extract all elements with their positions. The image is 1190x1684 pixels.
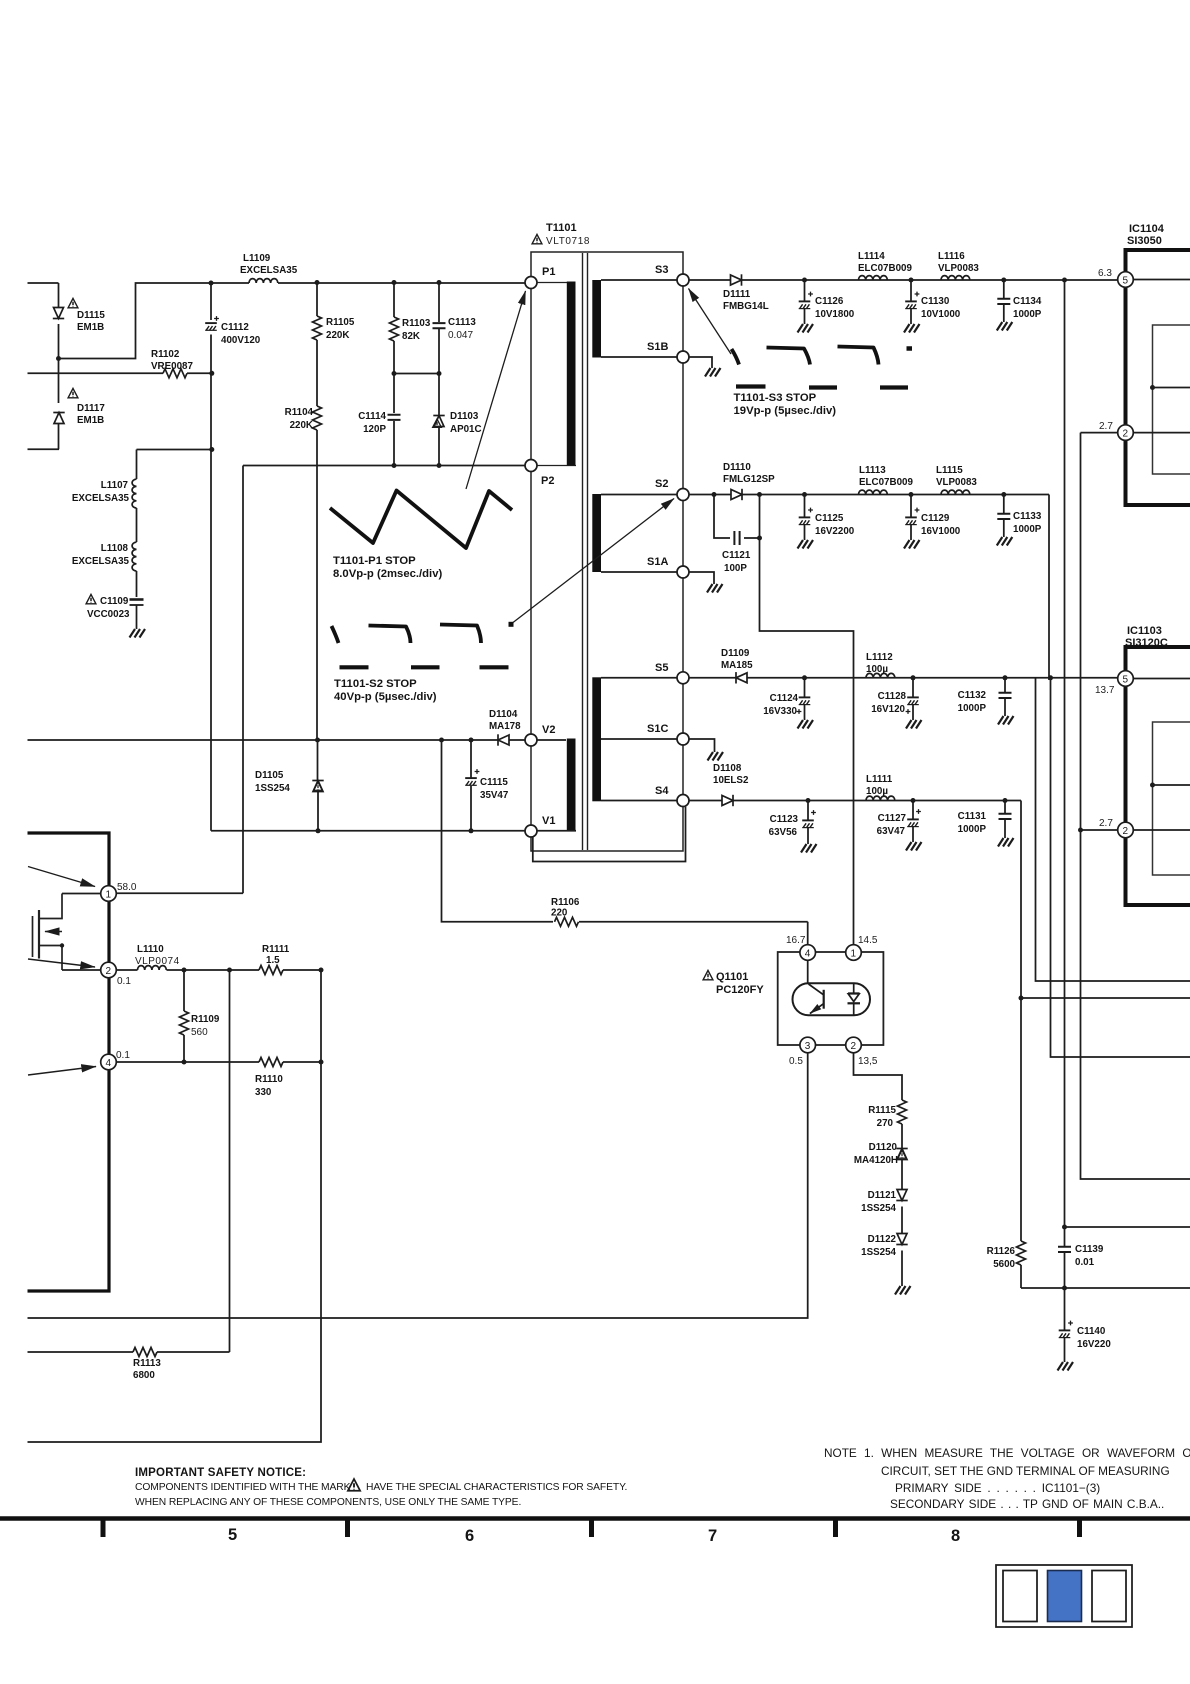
node V1/C1115 <box>469 828 474 833</box>
svg-text:L1108: L1108 <box>101 543 129 554</box>
pin 5 IC1104 <box>1098 268 1190 287</box>
svg-text:R1113: R1113 <box>133 1358 161 1369</box>
diode D1120 <box>854 1142 908 1194</box>
svg-text:1SS254: 1SS254 <box>255 783 290 794</box>
waveform T1101-S2 pulses <box>332 625 509 668</box>
svg-text:VLT0718: VLT0718 <box>546 236 590 247</box>
svg-text:100P: 100P <box>724 563 747 574</box>
wire S3 stub <box>601 279 677 281</box>
label T1101-S2 <box>334 678 437 703</box>
svg-text:V1: V1 <box>542 815 555 827</box>
arrow into pin2 <box>28 959 95 967</box>
svg-text:R1103: R1103 <box>402 318 431 329</box>
MOSFET Q inside IC1101 <box>33 894 65 971</box>
svg-text:0.047: 0.047 <box>448 330 473 341</box>
svg-text:63V56: 63V56 <box>769 827 798 838</box>
svg-text:SI3120C: SI3120C <box>1125 637 1168 649</box>
wire bottom-left stub <box>28 448 60 450</box>
inductor L1110 <box>116 944 247 970</box>
terminal V2 <box>525 724 555 746</box>
winding P1-P2 bar <box>537 283 576 466</box>
diode D1115 <box>53 298 106 333</box>
capacitor C1123 <box>769 801 816 845</box>
pin 1 IC1101 <box>62 882 243 901</box>
terminal P2 <box>525 460 554 488</box>
svg-text:0.5: 0.5 <box>789 1056 803 1067</box>
svg-text:D1117: D1117 <box>77 403 105 414</box>
svg-text:1: 1 <box>851 949 857 960</box>
diode D1105 <box>255 740 324 831</box>
resistor R1109 <box>180 970 220 1062</box>
ground S1B <box>705 368 721 377</box>
node inner box tap <box>1150 783 1190 788</box>
node link left <box>392 371 397 376</box>
svg-text:L1110: L1110 <box>137 944 164 955</box>
wire rail x1021 <box>1020 801 1022 1242</box>
resistor R1102 <box>28 349 212 378</box>
svg-text:L1111: L1111 <box>866 774 893 785</box>
svg-text:1SS254: 1SS254 <box>861 1203 896 1214</box>
safety mark in notice <box>348 1479 360 1491</box>
node C1128 top <box>911 675 916 680</box>
IC1103 block <box>1126 647 1190 905</box>
capacitor C1139 <box>1058 1227 1104 1288</box>
wire S1B stub <box>601 356 677 358</box>
resistor R1113 <box>28 1348 230 1382</box>
svg-text:16V120: 16V120 <box>871 704 905 715</box>
node y449 <box>209 447 214 452</box>
svg-text:330: 330 <box>255 1087 272 1098</box>
svg-text:C1133: C1133 <box>1013 511 1042 522</box>
IC1101 block <box>28 833 110 1291</box>
svg-text:VLP0083: VLP0083 <box>936 477 977 488</box>
node 13.7 rail <box>1048 675 1053 680</box>
node arrow source dot <box>509 622 514 627</box>
svg-text:0.1: 0.1 <box>117 976 131 987</box>
node link right <box>437 371 442 376</box>
LED in opto <box>848 983 861 1015</box>
inductor L1107 <box>72 479 137 508</box>
terminal S3 <box>655 264 689 286</box>
svg-text:13,5: 13,5 <box>858 1056 878 1067</box>
svg-text:D1105: D1105 <box>255 770 284 781</box>
svg-text:C1125: C1125 <box>815 513 844 524</box>
svg-text:VLP0083: VLP0083 <box>938 263 979 274</box>
node C1123 top <box>806 798 811 803</box>
node C1130 top <box>909 278 914 283</box>
svg-text:S1C: S1C <box>647 723 668 735</box>
diode D1122 <box>861 1234 908 1287</box>
svg-text:C1123: C1123 <box>770 814 799 825</box>
svg-text:19Vp-p (5µsec./div): 19Vp-p (5µsec./div) <box>734 405 837 417</box>
svg-text:16.7: 16.7 <box>786 935 806 946</box>
waveform T1101-P1 sawtooth <box>330 491 512 549</box>
wire S1B gnd stub <box>689 357 712 368</box>
node C1121 right <box>757 536 762 541</box>
wire rail x1050 <box>1051 678 1190 1057</box>
label T1101-S3 <box>734 392 837 417</box>
svg-text:R1111: R1111 <box>262 944 290 955</box>
svg-text:S4: S4 <box>655 785 669 797</box>
node C1134 top <box>1001 278 1006 283</box>
svg-text:16V220: 16V220 <box>1077 1339 1111 1350</box>
capacitor C1130 <box>905 280 961 324</box>
svg-text:EXCELSA35: EXCELSA35 <box>72 493 130 504</box>
wire x211 rail <box>210 283 212 831</box>
svg-text:Q1101: Q1101 <box>716 971 748 983</box>
wire y1288 bus <box>1021 1287 1190 1289</box>
wire y998 branch <box>1021 997 1190 999</box>
capacitor C1112 <box>205 316 261 346</box>
pin 1 opto <box>846 935 878 960</box>
svg-text:T1101-S2 STOP: T1101-S2 STOP <box>334 678 417 690</box>
node V2/C1115 <box>469 738 474 743</box>
wire feedback to opto pin1 <box>760 538 854 945</box>
svg-text:5: 5 <box>1123 675 1129 686</box>
ground C1125 <box>798 540 814 549</box>
wire V2 stub <box>537 739 566 741</box>
svg-text:MA185: MA185 <box>721 660 753 671</box>
wire S1C stub <box>601 738 677 740</box>
svg-text:220K: 220K <box>326 330 349 341</box>
node R1102 right <box>209 371 214 376</box>
inductor L1115 <box>936 465 977 495</box>
svg-text:2.7: 2.7 <box>1099 421 1113 432</box>
svg-text:R1126: R1126 <box>987 1246 1016 1257</box>
wire S3 row <box>689 279 1118 281</box>
node R1109 top <box>182 968 187 973</box>
svg-text:T1101: T1101 <box>546 222 577 234</box>
pin 2 IC1104 <box>1099 421 1190 440</box>
svg-text:R1106: R1106 <box>551 897 580 908</box>
svg-text:D1109: D1109 <box>721 648 750 659</box>
capacitor C1113 <box>433 283 477 374</box>
nav box <box>996 1565 1132 1627</box>
wire 6.3V drop <box>1048 495 1050 681</box>
svg-text:10V1000: 10V1000 <box>921 309 961 320</box>
node D1110 right <box>757 492 762 497</box>
svg-text:C1140: C1140 <box>1077 1326 1106 1337</box>
svg-text:C1127: C1127 <box>878 813 907 824</box>
svg-text:4: 4 <box>106 1058 112 1069</box>
svg-text:10ELS2: 10ELS2 <box>713 775 749 786</box>
svg-text:MA4120H: MA4120H <box>854 1155 898 1166</box>
svg-text:C1128: C1128 <box>878 691 907 702</box>
svg-text:D1104: D1104 <box>489 709 518 720</box>
node R1103 top <box>392 280 397 285</box>
svg-text:D1108: D1108 <box>713 763 742 774</box>
wire L1108-C1109 <box>136 571 138 597</box>
node C1114 bottom <box>392 463 397 468</box>
svg-text:40Vp-p (5µsec./div): 40Vp-p (5µsec./div) <box>334 691 437 703</box>
node V2/R1104 <box>315 738 320 743</box>
ground C1129 <box>904 540 920 549</box>
wire S4 row <box>689 800 1021 802</box>
node C1113 top <box>437 280 442 285</box>
ground S1A <box>707 584 723 593</box>
ground C1124 <box>798 720 814 729</box>
svg-text:C1126: C1126 <box>815 296 844 307</box>
diode D1121 <box>861 1190 908 1239</box>
node rail x1021 y998 <box>1019 996 1024 1001</box>
inductor L1111 <box>866 774 895 801</box>
IC1104 label <box>1127 223 1165 247</box>
node x229 top <box>227 968 232 973</box>
svg-text:IMPORTANT SAFETY NOTICE:: IMPORTANT SAFETY NOTICE: <box>135 1467 306 1479</box>
svg-text:VCC0023: VCC0023 <box>87 609 130 620</box>
svg-text:EM1B: EM1B <box>77 322 104 333</box>
svg-text:4: 4 <box>805 949 811 960</box>
svg-text:CIRCUIT, SET THE GND TERMINAL: CIRCUIT, SET THE GND TERMINAL OF MEASURI… <box>881 1464 1170 1478</box>
node C1131 top <box>1003 798 1008 803</box>
resistor R1103 <box>390 283 431 374</box>
ruler numbers <box>228 1526 960 1545</box>
capacitor C1127 <box>877 801 921 843</box>
pin 2 IC1101 <box>62 962 131 987</box>
svg-text:R1109: R1109 <box>191 1014 220 1025</box>
wire D1115-D1117 column <box>58 283 60 449</box>
wire mid link <box>59 283 212 359</box>
resistor R1104 <box>285 406 322 740</box>
svg-text:5: 5 <box>228 1526 237 1544</box>
capacitor C1125 <box>799 495 855 541</box>
svg-text:ELC07B009: ELC07B009 <box>859 477 913 488</box>
svg-text:8: 8 <box>951 1527 960 1545</box>
svg-text:PC120FY: PC120FY <box>716 984 764 996</box>
svg-text:P2: P2 <box>541 475 554 487</box>
node C1132 top <box>1003 675 1008 680</box>
IC1103 inner box <box>1153 722 1190 875</box>
capacitor C1114 <box>358 374 400 466</box>
wire V1 stub <box>537 830 576 832</box>
diode D1103 <box>433 374 482 466</box>
node C1124 top <box>802 675 807 680</box>
svg-text:R1102: R1102 <box>151 349 180 360</box>
terminal S1A <box>647 556 689 578</box>
wire opto pin3 return <box>28 1053 808 1318</box>
winding S2-S1A bar <box>592 494 601 572</box>
Q1101 label <box>703 970 764 996</box>
wire R1106 column <box>442 740 554 922</box>
wire V1 to S4 link <box>533 807 686 862</box>
node V2/R1106 <box>439 738 444 743</box>
svg-text:C1124: C1124 <box>770 693 799 704</box>
node D1103 bottom <box>437 463 442 468</box>
svg-text:C1113: C1113 <box>448 317 476 328</box>
ground C1132 <box>998 716 1014 725</box>
node C1125 top <box>802 492 807 497</box>
svg-text:V2: V2 <box>542 724 555 736</box>
resistor R1115 <box>868 1100 906 1148</box>
ruler bar <box>0 1516 1190 1521</box>
svg-text:L1107: L1107 <box>101 480 129 491</box>
node C1127 top <box>911 798 916 803</box>
terminal V1 <box>525 815 555 837</box>
svg-text:220: 220 <box>551 908 568 919</box>
svg-text:S1B: S1B <box>647 341 668 353</box>
inductor L1108 <box>72 542 137 571</box>
pin 2 opto <box>846 1037 902 1100</box>
svg-text:1000P: 1000P <box>1013 309 1042 320</box>
capacitor C1140 <box>1059 1288 1112 1362</box>
svg-text:6800: 6800 <box>133 1370 155 1381</box>
wire P2 row <box>243 465 525 467</box>
svg-text:100µ: 100µ <box>866 664 888 675</box>
node C1139 bottom <box>1062 1286 1067 1291</box>
svg-text:C1129: C1129 <box>921 513 950 524</box>
svg-text:L1113: L1113 <box>859 465 886 476</box>
wire rail x1064 (6.3V) <box>1064 280 1066 1227</box>
svg-text:1: 1 <box>106 890 112 901</box>
wire S2 stub <box>601 494 677 496</box>
svg-text:VLP0074: VLP0074 <box>135 956 180 967</box>
svg-text:S3: S3 <box>655 264 668 276</box>
svg-text:10V1800: 10V1800 <box>815 309 855 320</box>
resistor R1126 <box>987 1241 1026 1288</box>
label T1101-P1 <box>333 555 442 580</box>
svg-text:SI3050: SI3050 <box>1127 235 1162 247</box>
terminal S4 <box>655 785 689 807</box>
svg-text:560: 560 <box>191 1027 208 1038</box>
pin 4 opto <box>786 922 816 984</box>
svg-text:T1101-S3 STOP: T1101-S3 STOP <box>734 392 817 404</box>
wire L1107 column top <box>136 450 138 480</box>
IMPORTANT SAFETY NOTICE <box>135 1467 627 1508</box>
svg-text:C1109: C1109 <box>100 596 129 607</box>
svg-text:1SS254: 1SS254 <box>861 1247 896 1258</box>
svg-text:R1110: R1110 <box>255 1074 283 1085</box>
svg-text:L1116: L1116 <box>938 251 965 262</box>
svg-text:13.7: 13.7 <box>1095 685 1115 696</box>
node C1139 top branch <box>1062 1225 1067 1230</box>
capacitor C1121 <box>714 495 760 575</box>
capacitor C1132 <box>958 678 1012 716</box>
svg-text:AP01C: AP01C <box>450 424 482 435</box>
svg-text:D1111: D1111 <box>723 289 751 300</box>
node R1109 bottom <box>182 1060 187 1065</box>
ground C1140 <box>1058 1362 1074 1371</box>
svg-text:270: 270 <box>877 1118 894 1129</box>
ground C1109 <box>130 629 146 638</box>
node D1110 left <box>712 492 717 497</box>
svg-text:HAVE THE SPECIAL CHARACTERISTI: HAVE THE SPECIAL CHARACTERISTICS FOR SAF… <box>366 1482 627 1493</box>
svg-text:VRE0087: VRE0087 <box>151 361 193 372</box>
svg-text:1.5: 1.5 <box>266 955 280 966</box>
ground C1133 <box>997 537 1013 546</box>
svg-text:1000P: 1000P <box>1013 524 1042 535</box>
svg-text:6.3: 6.3 <box>1098 268 1112 279</box>
node V1/D1105 <box>316 828 321 833</box>
capacitor C1128 <box>871 678 919 720</box>
svg-text:2.7: 2.7 <box>1099 818 1113 829</box>
wire C1109-gnd <box>136 605 138 629</box>
node C1129 top <box>909 492 914 497</box>
capacitor C1133 <box>997 495 1042 538</box>
svg-text:0.1: 0.1 <box>116 1050 130 1061</box>
wire pin4 row <box>116 1061 259 1063</box>
wire y449 link <box>137 449 212 451</box>
transformer T1101 label <box>532 222 590 247</box>
ground zener chain <box>895 1286 911 1295</box>
terminal S5 <box>655 662 689 684</box>
wire V1 row <box>211 830 525 832</box>
svg-text:C1115: C1115 <box>480 777 508 788</box>
arrow into pin4 <box>28 1067 96 1076</box>
svg-text:2: 2 <box>1123 826 1129 837</box>
svg-text:D1122: D1122 <box>868 1234 897 1245</box>
wire S1C gnd stub <box>689 739 715 752</box>
ground C1134 <box>997 322 1013 331</box>
svg-text:2: 2 <box>106 966 112 977</box>
svg-text:C1112: C1112 <box>221 322 249 333</box>
svg-text:82K: 82K <box>402 331 420 342</box>
svg-text:FMLG12SP: FMLG12SP <box>723 474 775 485</box>
diode D1104 <box>489 709 521 746</box>
inductor L1114 <box>858 251 912 280</box>
wire rail x1035 <box>1036 678 1190 981</box>
pin 5 IC1103 <box>1095 671 1190 696</box>
wire y1227 branch <box>1065 1226 1190 1228</box>
terminal S2 <box>655 478 689 501</box>
svg-text:R1104: R1104 <box>285 407 314 418</box>
ground C1131 <box>998 838 1014 847</box>
svg-text:L1109: L1109 <box>243 253 271 264</box>
node D1115/D1117 junction <box>56 356 61 361</box>
svg-text:ELC07B009: ELC07B009 <box>858 263 912 274</box>
svg-text:220K: 220K <box>290 420 313 431</box>
svg-text:C1139: C1139 <box>1075 1244 1104 1255</box>
node C1126 top <box>802 278 807 283</box>
svg-text:S1A: S1A <box>647 556 668 568</box>
ground C1128 <box>906 720 922 729</box>
winding S3-S1B bar <box>592 280 601 358</box>
ground C1130 <box>904 324 920 333</box>
capacitor C1115 <box>465 740 509 831</box>
inductor L1116 <box>938 251 979 280</box>
winding S5-S4 bar <box>592 677 601 801</box>
transformer T1101 box <box>531 252 683 851</box>
svg-text:P1: P1 <box>542 266 555 278</box>
arrow waveform to S2 <box>513 499 674 623</box>
wire S5 stub <box>601 677 677 679</box>
wire V2 row <box>28 739 526 741</box>
IC1104 inner box <box>1153 325 1190 474</box>
svg-text:FMBG14L: FMBG14L <box>723 301 769 312</box>
svg-text:S2: S2 <box>655 478 668 490</box>
arrow into pin1 <box>28 867 95 887</box>
svg-text:C1114: C1114 <box>358 411 386 422</box>
wire L1107-L1108 <box>136 508 138 542</box>
diode D1117 <box>53 388 105 426</box>
Q1101 stadium <box>793 983 871 1015</box>
wire box left rail <box>242 466 244 894</box>
pin 2 IC1103 <box>1099 818 1190 838</box>
wire x229 drop to R1113 <box>229 970 231 1352</box>
svg-text:2: 2 <box>851 1041 857 1052</box>
inductor L1113 <box>859 465 914 495</box>
resistor R1110 <box>255 1058 321 1099</box>
wire S1A stub <box>601 571 677 573</box>
inductor L1109 <box>211 253 525 283</box>
terminal S1B <box>647 341 689 363</box>
svg-text:T1101-P1 STOP: T1101-P1 STOP <box>333 555 416 567</box>
svg-text:16V2200: 16V2200 <box>815 526 855 537</box>
svg-text:D1115: D1115 <box>77 310 105 321</box>
svg-text:SECONDARY SIDE . . . TP GND O: SECONDARY SIDE . . . TP GND OF MAIN C.B.… <box>890 1497 1164 1511</box>
svg-text:8.0Vp-p (2msec./div): 8.0Vp-p (2msec./div) <box>333 568 442 580</box>
pin 4 IC1101 <box>101 1050 131 1070</box>
capacitor C1126 <box>799 280 855 324</box>
